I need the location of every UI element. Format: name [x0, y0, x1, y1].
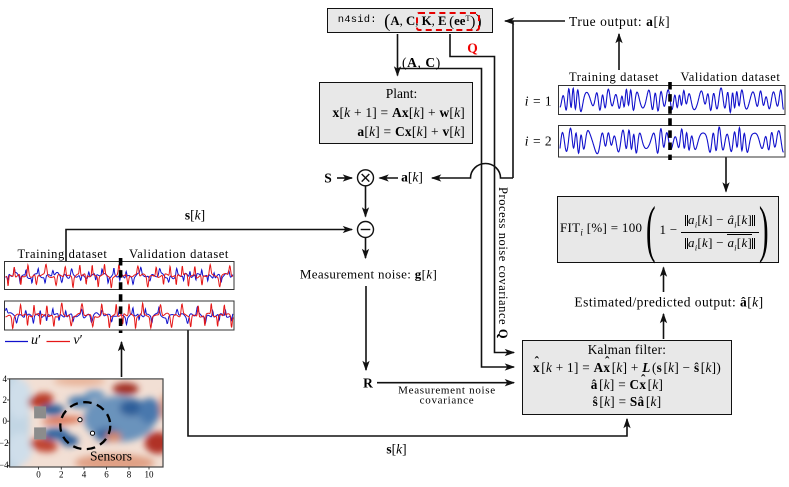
wire: s[k] from left plot-1 top to minus circle [66, 230, 352, 262]
wire: True output a[k] into n4sid box (arrow left) [505, 20, 565, 22]
contour axis labels [0, 375, 7, 384]
label Estimated/predicted output [574, 295, 763, 309]
wire: multiply circle down to minus circle [365, 186, 367, 217]
wire: (A,C) branch to Kalman filter [398, 69, 515, 368]
label s[k] top [185, 208, 205, 222]
wire: up arrow contour plot to left plots [121, 342, 123, 377]
axis ticks [7, 379, 149, 470]
wire: S to multiply circle [337, 177, 352, 179]
legend labels u' v' [31, 334, 41, 348]
legend red line v' [47, 341, 71, 343]
right signal plot i=1 frame [559, 86, 786, 115]
wire: measurement-noise label down to R [365, 286, 367, 370]
box FIT [557, 196, 779, 263]
label S [324, 171, 332, 185]
box Kalman filter [522, 340, 732, 415]
wire: right plot-2 down to FIT box [725, 157, 727, 192]
dashed separator right plots [668, 82, 672, 160]
dashed separator left plots [119, 258, 123, 333]
label Measurement noise g[k] [300, 267, 437, 280]
wire: a[k] label to multiply circle [380, 177, 399, 179]
left plot 2 blue u' curve [6, 307, 234, 325]
sensor dot 2 [90, 431, 94, 435]
label Measurement noise covariance [398, 385, 496, 406]
label Q (red) [467, 41, 478, 55]
label i = 1 [525, 94, 552, 108]
label i = 2 [525, 134, 552, 148]
right signal plot i=2 blue curve [560, 127, 784, 154]
box Plant [319, 82, 473, 145]
contour flow-field plot [0, 373, 171, 473]
red dashed highlight box [416, 12, 480, 32]
label R [363, 376, 373, 390]
sensors dashed circle [60, 402, 110, 449]
label (A, C) [402, 56, 441, 70]
label Training dataset (right) [569, 71, 659, 84]
box n4sid [327, 8, 493, 33]
wire: vertical a[k] feed line from True-output junction down [512, 21, 514, 178]
wire: bottom s[k] from left plot-2 to Kalman bottom [188, 330, 627, 436]
label Sensors [90, 449, 132, 463]
sensor dot 1 [78, 418, 82, 422]
left plot 1 blue u' curve [6, 267, 234, 284]
label a[k] [401, 170, 423, 184]
left plot 2 red v' curve [6, 303, 234, 329]
right signal plot i=2 frame [559, 126, 786, 158]
wire: Kalman up-arrow to estimated output label [663, 314, 665, 339]
multiply junction circle (x) [358, 170, 374, 238]
wire: up arrow right plots to True output label [618, 34, 620, 70]
wire: Q from n4sid down to Kalman filter [450, 34, 514, 353]
wire: R to Kalman filter (measurement noise covariance) [377, 382, 514, 384]
label Training dataset (left) [17, 247, 107, 260]
left signal plot 1 frame [5, 262, 235, 290]
wire: (A,C) from n4sid down into Plant [397, 34, 399, 76]
legend blue line u' [5, 341, 28, 343]
contour frame [10, 379, 163, 467]
label Validation dataset (right) [680, 71, 780, 84]
wire: FIT up-arrow from estimated output label [663, 268, 665, 293]
bluff body squares [34, 406, 46, 418]
label True output [569, 15, 670, 29]
left signal plot 2 frame [5, 301, 235, 330]
right signal plot i=1 blue curve [560, 88, 784, 112]
label Validation dataset (left) [129, 247, 229, 260]
left plot 1 red v' curve [6, 264, 234, 288]
wire: minus circle down to measurement-noise label [365, 238, 367, 258]
label s[k] bottom [386, 442, 406, 456]
minus junction circle [358, 222, 374, 238]
label Process noise covariance Q (vertical) [497, 187, 510, 339]
wire: a[k] horizontal with bridge hop over Q and (A,C) lines, arrow into a[k] label [432, 164, 513, 179]
